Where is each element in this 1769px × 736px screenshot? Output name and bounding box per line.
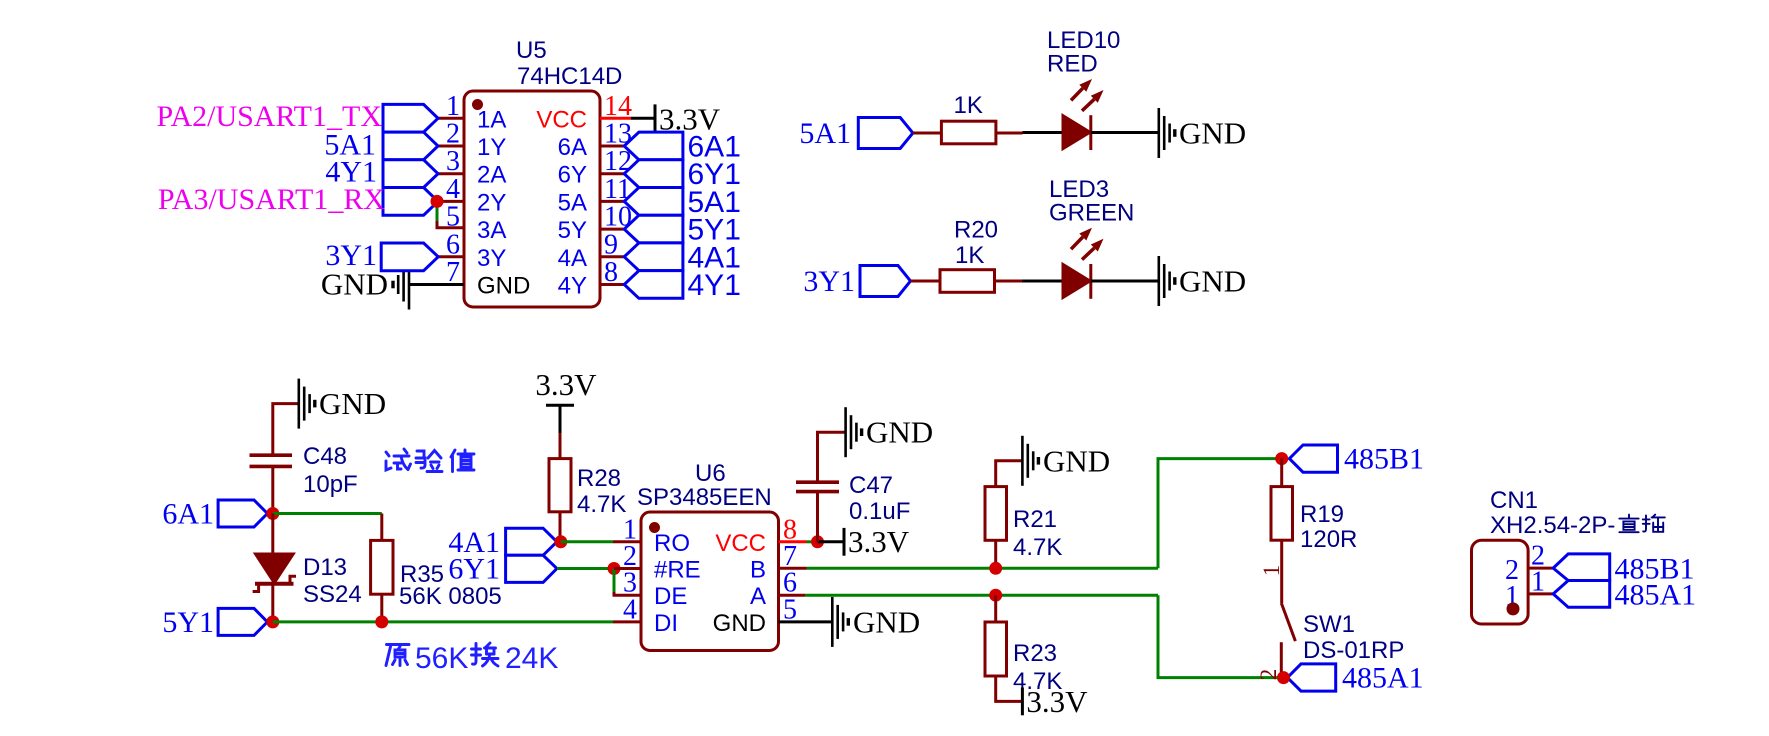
- ground at LED3: [1159, 256, 1175, 306]
- node 6A1 junction: [266, 507, 279, 520]
- resistor R20 1K: [940, 270, 995, 293]
- svg-text:GND: GND: [319, 386, 386, 421]
- svg-text:5Y: 5Y: [558, 217, 587, 244]
- svg-text:GND: GND: [1043, 443, 1110, 478]
- svg-text:GND: GND: [866, 415, 933, 450]
- wire DI net 5Y1 to U6 pin4: [273, 620, 613, 623]
- wire pin4 stub: [613, 620, 641, 623]
- pin names U5 left: [477, 106, 530, 299]
- wire pin6 stub: [438, 255, 464, 258]
- wire elbow to pin5: [437, 221, 464, 228]
- wire pin14 to 3.3V: [631, 117, 655, 120]
- svg-text:3.3V: 3.3V: [1026, 684, 1088, 719]
- svg-text:1Y: 1Y: [477, 134, 506, 161]
- annotation 试验值: [386, 449, 474, 472]
- pin names U6 right: [713, 530, 766, 637]
- pin numbers U6 right: [783, 514, 797, 625]
- svg-text:R20: R20: [954, 217, 998, 244]
- wire elbow into pin3: [614, 592, 641, 595]
- wire C48 top to GND elbow: [273, 404, 299, 456]
- svg-text:6Y1: 6Y1: [448, 553, 500, 586]
- svg-text:#RE: #RE: [654, 557, 701, 584]
- wire pin7 to GND: [409, 283, 464, 286]
- svg-text:GND: GND: [853, 604, 920, 639]
- port flag PA2/USART1_TX (pin1): [383, 104, 438, 132]
- capacitor C47: [796, 482, 839, 491]
- wire R21 top to GND elbow: [996, 461, 1023, 487]
- CN1 polarity dot: [1507, 602, 1520, 615]
- svg-text:R19: R19: [1300, 501, 1344, 528]
- wire pin3 stub: [436, 172, 464, 175]
- wire CN1 pin1: [1528, 592, 1553, 595]
- ground at LED10: [1159, 108, 1175, 158]
- svg-text:SP3485EEN: SP3485EEN: [637, 484, 772, 511]
- wire R35 bottom lead: [380, 594, 383, 622]
- svg-text:6Y: 6Y: [558, 162, 587, 189]
- ground at U5 pin7 (mirrored): [393, 260, 409, 310]
- wire node down to pin3: [613, 569, 616, 593]
- svg-text:9: 9: [604, 229, 618, 260]
- wire flag to R: [913, 132, 942, 135]
- ic U5 body: [464, 91, 600, 307]
- svg-text:DE: DE: [654, 583, 687, 610]
- svg-text:485A1: 485A1: [1615, 579, 1697, 612]
- svg-text:GND: GND: [1179, 116, 1246, 151]
- switch SW1 blade: [1281, 603, 1295, 641]
- wire R23 top lead: [994, 595, 997, 622]
- wire pin1 stub: [436, 117, 464, 120]
- power 3.3V bar at R23: [1021, 688, 1024, 716]
- connector CN1 body: [1472, 540, 1529, 624]
- node 5Y1 junction: [266, 615, 279, 628]
- svg-text:24K: 24K: [505, 642, 558, 675]
- led LED3: [1063, 228, 1104, 299]
- wire 6A1 node to D13 anode: [271, 514, 274, 554]
- svg-text:8: 8: [604, 257, 618, 288]
- svg-text:56K 0805: 56K 0805: [399, 583, 502, 610]
- svg-text:3Y1: 3Y1: [803, 265, 855, 298]
- svg-text:6: 6: [446, 229, 460, 260]
- svg-text:4.7K: 4.7K: [577, 491, 626, 518]
- wire R35 top lead: [380, 514, 383, 541]
- pin names U6 left: [654, 530, 701, 637]
- svg-text:SS24: SS24: [303, 581, 362, 608]
- net labels right of U5: [688, 131, 741, 303]
- wire R19 bottom to switch: [1280, 540, 1283, 603]
- svg-text:SW1: SW1: [1303, 611, 1355, 638]
- svg-text:4.7K: 4.7K: [1013, 534, 1062, 561]
- svg-text:C48: C48: [303, 443, 347, 470]
- diode D13 SS24: [253, 554, 296, 592]
- pin numbers U5 right: [604, 91, 632, 288]
- svg-text:6A1: 6A1: [162, 498, 214, 531]
- svg-text:GREEN: GREEN: [1049, 200, 1134, 227]
- port flag 5A1 (pin2): [383, 132, 438, 160]
- wire R21 bottom lead: [994, 540, 997, 568]
- svg-text:A: A: [750, 583, 766, 610]
- wire pin6 stub: [779, 594, 806, 597]
- node 485B1 junction: [1275, 452, 1288, 465]
- switch SW1 bottom contact: [1280, 642, 1283, 677]
- svg-text:RED: RED: [1047, 51, 1098, 78]
- svg-text:4A: 4A: [558, 245, 587, 272]
- svg-text:U6: U6: [695, 460, 726, 487]
- resistor R19: [1271, 487, 1293, 541]
- ground at C47: [846, 407, 862, 457]
- power 3.3V bar at pin8: [843, 528, 846, 556]
- wire R28 bottom to node: [559, 512, 562, 542]
- annotation 原56K换24K: [386, 643, 498, 666]
- svg-text:1K: 1K: [954, 92, 983, 119]
- wire 6Y1 to node: [557, 567, 614, 570]
- wire pin4 stub: [437, 200, 464, 203]
- svg-text:GND: GND: [1179, 264, 1246, 299]
- wire LED to GND: [1091, 131, 1159, 134]
- svg-text:2A: 2A: [477, 162, 506, 189]
- svg-text:R23: R23: [1013, 640, 1057, 667]
- node 485A1 junction: [1277, 671, 1290, 684]
- wire B net to R21 node and right: [807, 567, 1159, 570]
- port flag 485A1: [1287, 664, 1335, 691]
- led LED10: [1063, 79, 1104, 150]
- port flag 5A1: [858, 118, 913, 149]
- svg-text:B: B: [750, 557, 766, 584]
- port flag 5Y1: [218, 608, 267, 635]
- node pin4-pin5 junction: [431, 195, 444, 208]
- U5 pin-1 dot: [472, 99, 483, 110]
- wire flag to R20: [911, 280, 941, 283]
- wire D13 cathode to 5Y1 node: [271, 584, 274, 622]
- svg-text:3.3V: 3.3V: [535, 367, 597, 402]
- wire green bit at pin8: [807, 540, 818, 543]
- wire R to LED lead: [996, 132, 1023, 135]
- svg-text:VCC: VCC: [715, 530, 766, 557]
- node A/R23 junction: [989, 589, 1002, 602]
- svg-text:XH2.54-2P-: XH2.54-2P-: [1490, 512, 1615, 539]
- resistor R28: [549, 459, 571, 512]
- wire B net up and to 485B1: [1158, 459, 1282, 569]
- svg-text:3Y1: 3Y1: [325, 239, 377, 272]
- wire 3.3V to R28: [559, 405, 562, 433]
- svg-text:4: 4: [446, 174, 460, 205]
- svg-text:DI: DI: [654, 610, 678, 637]
- wire pin7 stub: [779, 567, 807, 570]
- power 3.3V bar at pin14: [654, 104, 657, 132]
- svg-text:1: 1: [1531, 566, 1545, 597]
- node 4A1/R28 junction: [554, 535, 567, 548]
- power 3.3V bar above R28: [546, 404, 574, 407]
- svg-text:DS-01RP: DS-01RP: [1303, 637, 1404, 664]
- port flag 485A1 at CN1: [1553, 581, 1610, 608]
- resistor R21: [985, 487, 1007, 541]
- resistor 1K (LED10): [941, 121, 996, 144]
- wire R23 bottom to 3.3V: [996, 676, 1023, 701]
- U6 pin-1 dot: [649, 522, 660, 533]
- svg-text:6A: 6A: [558, 134, 587, 161]
- svg-text:485A1: 485A1: [1342, 662, 1424, 695]
- svg-text:4Y: 4Y: [558, 273, 587, 300]
- wire A net down and to 485A1: [1158, 595, 1284, 677]
- node VCC junction: [811, 535, 824, 548]
- port flag 4A1: [506, 528, 557, 555]
- svg-text:VCC: VCC: [536, 106, 587, 133]
- svg-text:C47: C47: [849, 472, 893, 499]
- wire to U6 pin1: [561, 540, 613, 543]
- wire LED3 to GND: [1091, 280, 1159, 283]
- svg-text:1K: 1K: [955, 242, 984, 269]
- svg-text:5Y1: 5Y1: [162, 606, 214, 639]
- port flag 6Y1: [506, 555, 557, 582]
- svg-text:5A: 5A: [558, 189, 587, 216]
- svg-text:1A: 1A: [477, 106, 506, 133]
- svg-text:2Y: 2Y: [477, 189, 506, 216]
- pin names U5 right: [536, 106, 587, 299]
- svg-text:R21: R21: [1013, 506, 1057, 533]
- node R35 bottom junction: [375, 615, 388, 628]
- svg-text:3: 3: [446, 146, 460, 177]
- wire R19 top lead: [1280, 459, 1283, 487]
- svg-text:4Y1: 4Y1: [688, 269, 741, 302]
- wire R20 to LED lead: [995, 280, 1023, 283]
- port flag 3Y1 (pin6): [381, 243, 438, 271]
- pin numbers U5 left: [446, 91, 460, 288]
- port flag 485B1 at CN1: [1553, 554, 1610, 581]
- svg-text:7: 7: [446, 257, 460, 288]
- wire pin8 stub red: [779, 540, 807, 543]
- wire A net to R23 node and right: [805, 594, 1158, 597]
- ground at R21: [1022, 436, 1038, 486]
- svg-text:PA3/USART1_RX: PA3/USART1_RX: [158, 183, 385, 216]
- port flag 6A1: [218, 500, 267, 527]
- svg-text:10pF: 10pF: [303, 471, 358, 498]
- wire CN1 pin2: [1528, 567, 1553, 570]
- svg-text:2: 2: [446, 119, 460, 150]
- svg-text:CN1: CN1: [1490, 487, 1538, 514]
- port flag 485B1: [1289, 445, 1337, 472]
- port flag 3Y1: [860, 266, 911, 297]
- svg-text:5: 5: [446, 202, 460, 233]
- svg-text:5A1: 5A1: [799, 117, 851, 150]
- svg-text:74HC14D: 74HC14D: [517, 63, 622, 90]
- wire C47 top to GND elbow: [818, 432, 846, 482]
- svg-text:485B1: 485B1: [1344, 443, 1424, 476]
- right side port flag stack 6A1..4Y1: [624, 132, 683, 298]
- wire to LED: [1023, 131, 1065, 134]
- port flag PA3/USART1_RX (pin4): [383, 188, 438, 216]
- svg-text:R28: R28: [577, 465, 621, 492]
- svg-text:3A: 3A: [477, 217, 506, 244]
- wire green drop from junction: [436, 201, 439, 221]
- wire C48 bottom to 6A1 node: [271, 466, 274, 513]
- svg-text:GND: GND: [477, 273, 530, 300]
- node B/R21 junction: [989, 562, 1002, 575]
- wire pin2 stub: [436, 145, 464, 148]
- svg-text:1: 1: [1259, 565, 1284, 577]
- pin numbers U6 left: [623, 514, 637, 625]
- wire pin5 to GND: [779, 620, 833, 623]
- wire node to 3.3V: [818, 540, 845, 543]
- wire C47 bottom to VCC node: [816, 492, 819, 542]
- svg-text:3Y: 3Y: [477, 245, 506, 272]
- wire pin14 stub red: [600, 117, 631, 120]
- svg-text:56K: 56K: [415, 642, 468, 675]
- svg-text:4: 4: [623, 594, 637, 625]
- capacitor C48: [250, 455, 293, 466]
- ground at C48: [299, 379, 315, 429]
- resistor R23: [985, 622, 1007, 676]
- wire pin2 stub: [614, 567, 641, 570]
- svg-text:U5: U5: [516, 37, 547, 64]
- svg-text:0.1uF: 0.1uF: [849, 498, 910, 525]
- svg-text:D13: D13: [303, 554, 347, 581]
- svg-text:GND: GND: [713, 610, 766, 637]
- wire pin1 stub: [613, 540, 641, 543]
- wire 6A1 node to R35 top: [273, 512, 382, 515]
- svg-text:RO: RO: [654, 530, 690, 557]
- wire to LED3: [1022, 280, 1064, 283]
- ground at U6 pin5: [832, 597, 848, 647]
- svg-text:120R: 120R: [1300, 526, 1357, 553]
- resistor R35: [371, 540, 393, 594]
- wires pins 13..8 stubs: [600, 146, 624, 285]
- ic U6 body: [641, 512, 779, 651]
- svg-text:3.3V: 3.3V: [848, 524, 910, 559]
- node 6Y1/pin2 junction: [608, 562, 621, 575]
- port flag 4Y1 (pin3): [383, 160, 438, 188]
- svg-text:1: 1: [446, 91, 460, 122]
- svg-text:14: 14: [604, 91, 632, 122]
